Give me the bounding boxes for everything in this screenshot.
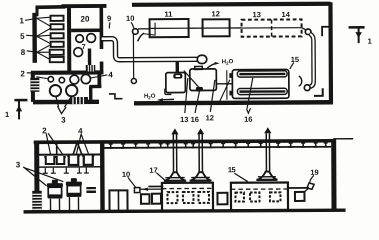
leader to label 16a: [195, 90, 200, 113]
hatch machine on bottom wall: [70, 97, 88, 104]
svg-text:14: 14: [281, 10, 290, 19]
small circle b: [59, 77, 64, 82]
roof thin extension: [333, 138, 353, 140]
diagonal through boxes: [184, 70, 200, 88]
leader label 15: [234, 173, 248, 182]
hood 2: [190, 172, 212, 181]
svg-text:2: 2: [20, 69, 25, 78]
box B dashed line: [231, 188, 288, 190]
flange: [173, 74, 182, 79]
stairs hatch elevation: [32, 191, 42, 213]
svg-text:3: 3: [61, 116, 66, 125]
valve squiggle: [138, 33, 145, 41]
H2O arrow bottom: [157, 89, 174, 102]
wall bottom left-block: [33, 100, 99, 105]
cup 4: [82, 156, 94, 165]
nozzle rect 6: [50, 57, 64, 62]
bracket top-right: [322, 27, 329, 37]
svg-text:16: 16: [191, 115, 199, 124]
wall top main segment: [132, 4, 330, 5]
leader label 9: [108, 22, 111, 28]
exchanger tab 2: [229, 91, 233, 96]
wall bottom of plan: [134, 102, 333, 103]
bench line right: [288, 187, 308, 189]
ceiling hanger ticks: [109, 143, 328, 148]
stack 3: [264, 127, 271, 171]
line 11 to 12: [189, 27, 203, 29]
valve circle right top: [305, 29, 311, 35]
leader wall to circle a: [36, 77, 48, 79]
rect 12 midline: [203, 27, 230, 29]
svg-text:16: 16: [244, 115, 252, 124]
wall inner vertical left-block: [67, 7, 71, 73]
svg-text:1: 1: [5, 110, 9, 119]
svg-text:13: 13: [180, 115, 188, 124]
bench square: [295, 192, 305, 201]
svg-text:10: 10: [126, 14, 134, 23]
leader big circle e down: [56, 96, 59, 106]
leader big circle f down: [64, 96, 71, 107]
wall left upper: [32, 13, 37, 63]
connector box13 to exchanger: [216, 83, 232, 85]
tank 1: [47, 180, 63, 211]
box A dashed squares: [167, 192, 209, 203]
conveyor line with arrow: [140, 186, 164, 191]
svg-text:12: 12: [211, 9, 219, 18]
valve circle bottom: [131, 78, 136, 83]
leader V to label 3: [57, 106, 66, 114]
svg-text:10: 10: [122, 170, 130, 179]
heat exchanger outer box: [232, 69, 289, 98]
leader to label 16b: [246, 78, 253, 114]
line 12 to 13: [230, 27, 242, 29]
nozzle rect 4: [51, 42, 64, 47]
right pipe: [310, 34, 314, 87]
leader label 17: [156, 173, 165, 181]
dashed divider: [271, 20, 273, 37]
drop line vertical: [132, 34, 134, 78]
exchanger bar 1: [237, 71, 287, 77]
machine rect 11: [150, 19, 189, 37]
pipe 9: [102, 38, 198, 60]
hook mark: [299, 76, 302, 86]
hood 3: [256, 172, 277, 180]
svg-text:3: 3: [16, 160, 21, 169]
svg-text:11: 11: [164, 10, 172, 19]
square between boxes: [217, 193, 227, 205]
box A dashed line: [162, 187, 213, 189]
door box: [109, 190, 127, 211]
line valve to rect 11: [138, 28, 149, 30]
hanging T marks: [43, 168, 89, 174]
wall right of room4: [97, 74, 101, 86]
rect 11 midline: [150, 27, 189, 29]
medium circle d: [81, 74, 90, 83]
hanger bar left room: [39, 153, 100, 155]
stairs step symbol: [109, 94, 123, 99]
cup 1: [44, 157, 56, 164]
mash box left: [166, 73, 186, 93]
drop pipe from conveyor: [176, 61, 179, 72]
wall room7 right lower: [100, 61, 104, 74]
svg-text:19: 19: [310, 168, 318, 177]
svg-text:15: 15: [228, 165, 236, 174]
section arrow bottom-left: [14, 100, 27, 120]
cup 3: [67, 156, 80, 165]
svg-text:15: 15: [291, 55, 299, 64]
leader circle d to label 4: [90, 75, 107, 78]
pipe end cap: [197, 55, 207, 63]
svg-text:12: 12: [206, 113, 214, 122]
wall notch: [89, 85, 101, 88]
thin vertical line x227: [226, 70, 228, 99]
small square a: [141, 194, 150, 204]
big box A: [162, 183, 213, 211]
tank 2: [66, 178, 82, 210]
wall top-left segment: [35, 5, 65, 9]
svg-text:H2O: H2O: [222, 59, 234, 66]
floor line: [24, 210, 346, 212]
wall right: [328, 2, 333, 103]
svg-text:13: 13: [252, 10, 260, 19]
door box divider: [117, 190, 119, 210]
leader to label 13: [185, 78, 188, 113]
leader label 10: [128, 177, 136, 188]
stack 1: [171, 128, 178, 172]
hatch machine upper: [86, 65, 96, 72]
medium circle c: [70, 75, 79, 84]
box bump: [195, 66, 203, 69]
leader extra diagonal: [219, 80, 230, 103]
svg-text:5: 5: [20, 32, 25, 41]
small square b: [152, 194, 161, 204]
valve circle top: [132, 29, 138, 35]
tank circle 7a: [76, 35, 84, 43]
big circle e: [50, 85, 61, 96]
valve circle right bottom: [304, 85, 310, 91]
wall left lower: [31, 73, 35, 102]
small L line: [144, 23, 155, 36]
wall left elevation: [34, 141, 39, 212]
svg-text:8: 8: [21, 48, 26, 57]
svg-text:1: 1: [20, 16, 25, 25]
exchanger tab 1: [229, 73, 233, 78]
leader label 15: [290, 62, 294, 69]
machine rect 12: [203, 19, 230, 36]
side table: [86, 187, 96, 193]
leader label 19: [310, 175, 314, 182]
svg-text:1: 1: [368, 37, 372, 46]
mash box right: [190, 69, 217, 91]
leaders label 3: [23, 167, 63, 186]
leader to label 12b: [210, 80, 215, 112]
flag square: [134, 188, 140, 193]
stairs hatch left wall: [30, 78, 39, 92]
blob in right box: [196, 87, 203, 92]
leaders label 4: [76, 134, 89, 155]
section arrow top-right: [349, 27, 365, 43]
wall room20 bottom: [71, 28, 101, 32]
roof line: [34, 141, 333, 143]
svg-text:H2O: H2O: [144, 94, 156, 101]
tank circle 7b: [87, 34, 96, 43]
leaders label 2: [46, 133, 63, 155]
exchanger bar 2: [237, 88, 287, 94]
cup 2: [55, 157, 66, 164]
ceiling lower line: [102, 147, 331, 148]
nozzle rect 2: [51, 24, 64, 29]
dashed rect 13-14: [242, 19, 302, 36]
wall stub above hatch: [88, 49, 91, 66]
dashed midline: [242, 27, 302, 29]
parallelogram: [307, 183, 314, 190]
svg-text:4: 4: [108, 70, 113, 79]
stack 2: [197, 128, 204, 172]
wall room20 right: [99, 4, 103, 48]
nozzle rect 1: [51, 16, 64, 21]
hanger rod: [56, 144, 58, 154]
wall right elevation: [331, 139, 336, 210]
nozzle rect 5: [50, 50, 64, 55]
big box B: [231, 182, 288, 210]
tank circle 7c: [74, 48, 83, 57]
svg-text:20: 20: [81, 15, 90, 24]
leader label 2: [27, 72, 33, 74]
leader label 10: [131, 22, 134, 28]
shelf line left room: [39, 166, 100, 168]
wall top-left corner stub: [35, 6, 38, 16]
leader fan nozzles: [25, 17, 51, 59]
H2O arrow top: [207, 62, 219, 68]
nozzle rect 3: [51, 33, 64, 38]
small circle a: [48, 77, 53, 82]
hanger lambda: [73, 142, 82, 154]
line to right valve: [302, 28, 307, 30]
bracket bottom-right: [314, 88, 323, 96]
wall horizontal main left-block: [31, 70, 103, 75]
svg-text:7: 7: [82, 44, 86, 51]
wall divider elevation: [100, 142, 105, 211]
big circle f: [66, 85, 77, 96]
wall notch vertical: [89, 87, 92, 101]
hood 1: [164, 172, 186, 181]
bench diagonal: [304, 188, 308, 192]
svg-text:9: 9: [107, 14, 111, 23]
box B dashed squares: [235, 192, 280, 201]
